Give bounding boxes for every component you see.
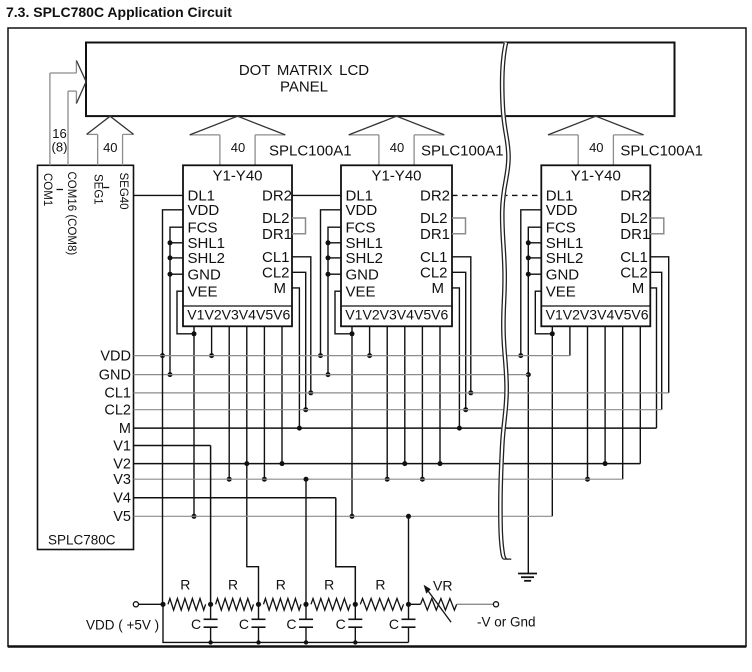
wire driver U3 DL2-DR1 loop (650, 218, 664, 234)
wire driver U2 pin V4 down (404, 326, 406, 463)
capacitor C1 (204, 604, 218, 642)
COM bus arrow head back bottom (75, 91, 77, 103)
svg-text:V1: V1 (113, 438, 131, 454)
dashed wire driver U2 DR2 to driver U3 DL1 (452, 194, 541, 196)
wire driver U3 VDD pin to VDD bus (521, 210, 542, 356)
svg-text:R: R (228, 577, 238, 593)
terminal VDD (+5V) open circle (133, 602, 138, 607)
svg-text:Y1-Y40: Y1-Y40 (571, 167, 621, 184)
COM bus arrow shaft bottom (68, 90, 76, 92)
wire driver U1 pin V3 down (228, 326, 230, 479)
junction driver U2 chain on GND bus (326, 372, 331, 377)
svg-text:DL2: DL2 (620, 210, 648, 227)
V1 bus descender (210, 446, 212, 605)
VDD rail descender (chip U1 VDD line continues to ladder) (162, 356, 164, 605)
driver U2 SPLC100A1 box (341, 165, 452, 326)
svg-text:R: R (180, 577, 190, 593)
svg-text:DR1: DR1 (420, 226, 450, 243)
wire driver U3 pin V2 down (569, 326, 571, 355)
svg-text:C: C (336, 616, 346, 632)
svg-text:-V or Gnd: -V or Gnd (477, 615, 536, 630)
ground symbol bar1 (518, 573, 537, 575)
COM bus arrow head back top (75, 61, 77, 74)
wire driver U3 pin V1 down (551, 326, 553, 516)
svg-text:7.3. SPLC780C Application Circ: 7.3. SPLC780C Application Circuit (6, 4, 232, 20)
wire driver U2 VDD pin to VDD bus (321, 210, 342, 356)
junction driver U1 VEE on V1 pin line (192, 331, 197, 336)
svg-text:SEG1: SEG1 (92, 174, 104, 205)
junction driver U3 pin V3 (585, 477, 590, 482)
capacitor C4 (348, 604, 362, 642)
driver U2 internal separator line (341, 305, 452, 307)
junction driver U2 pin V5 (420, 477, 425, 482)
wire driver U1 pin V6 down (281, 326, 283, 463)
svg-text:GND: GND (99, 367, 131, 383)
junction driver U2 SHL1 on chain (326, 240, 331, 245)
svg-text:CL2: CL2 (620, 265, 648, 282)
wire driver U1 SHL1 stub (170, 242, 183, 244)
svg-text:40: 40 (589, 140, 603, 155)
wire driver U2 pin V6 down (439, 326, 441, 463)
wire driver U2 DL2-DR1 loop (452, 218, 466, 234)
junction driver U1 pin V6 (280, 461, 285, 466)
junction bottom rail cap C1 (208, 640, 212, 644)
resistor R3 (264, 599, 302, 611)
bus line V4 (134, 497, 336, 499)
svg-text:VDD: VDD (346, 202, 378, 219)
svg-text:V3: V3 (113, 472, 131, 488)
wire driver U1 pin V5 down (263, 326, 265, 479)
svg-text:VEE: VEE (346, 283, 376, 300)
junction bottom rail cap C3 (304, 640, 308, 644)
svg-text:VR: VR (433, 578, 452, 594)
svg-text:VDD: VDD (188, 202, 220, 219)
svg-text:SHL2: SHL2 (346, 250, 384, 267)
LCD panel box (86, 43, 675, 117)
page break wavy mask (500, 43, 509, 560)
wire driver U2 SHL1 stub (328, 242, 341, 244)
svg-text:SHL2: SHL2 (188, 250, 226, 267)
svg-text:VDD: VDD (100, 348, 131, 364)
junction driver U3 chain on GND bus (526, 372, 531, 377)
junction driver U2 CL2 on CL2 bus (463, 407, 468, 412)
svg-text:FCS: FCS (546, 219, 576, 236)
svg-text:COM16 (COM8): COM16 (COM8) (65, 172, 77, 256)
driver U1 internal separator line (183, 305, 292, 307)
V3 bus descender (305, 479, 307, 604)
svg-text:DR2: DR2 (620, 188, 650, 205)
svg-text:FCS: FCS (346, 219, 376, 236)
wire driver U1 pin V4 down to ladder (V2 bias feed) (247, 326, 259, 604)
capacitor C3 (299, 604, 313, 642)
junction driver U2 CL1 on CL1 bus (468, 390, 473, 395)
wire junction6 to VR (409, 603, 421, 605)
wire driver U1 FCS chain vertical (170, 227, 183, 374)
junction ladder node 3 (303, 602, 308, 607)
svg-text:R: R (324, 577, 334, 593)
svg-text:PANEL: PANEL (280, 79, 328, 96)
bus line CL2 (134, 409, 662, 411)
wire driver U3 pin V5 down (622, 326, 624, 479)
wire driver U2 pin V5 down (421, 326, 423, 479)
wire driver U2 M to M bus (452, 288, 459, 428)
svg-text:CL2: CL2 (262, 265, 290, 282)
wire terminal to junction 1 (139, 603, 164, 605)
wire driver U1 M to M bus (292, 288, 299, 428)
junction ladder node 5 (406, 602, 411, 607)
svg-text:SHL2: SHL2 (546, 250, 584, 267)
V5 bus descender (408, 516, 410, 604)
wire driver U1 GND stub (170, 273, 183, 275)
wire SEG40 to driver U1 DL1 (134, 194, 184, 196)
wire driver U3 pin V3 down (587, 326, 589, 479)
wire driver U1 DL2-DR1 loop (292, 218, 306, 234)
resistor R1 (168, 599, 206, 611)
wire driver U2 pin V1 down (351, 326, 353, 516)
junction driver U2 GND on chain (326, 272, 331, 277)
wire driver U3 GND stub (528, 273, 541, 275)
svg-text:V2: V2 (113, 456, 131, 472)
junction driver U3 SHL1 on chain (526, 240, 531, 245)
svg-text:CL1: CL1 (262, 249, 290, 266)
junction driver U2 VEE on V1 pin line (350, 331, 355, 336)
bus line VDD (134, 355, 570, 357)
bus arrow from driver U1 to panel (190, 116, 286, 165)
wire driver U2 VEE to V1 pin (335, 291, 352, 334)
SEG bus arrow into panel (87, 116, 134, 165)
wire driver U1 pin V1 down (193, 326, 195, 516)
svg-text:SPLC100A1: SPLC100A1 (620, 143, 703, 160)
junction driver U1 M on M bus (297, 426, 302, 431)
svg-text:DR2: DR2 (262, 188, 292, 205)
svg-text:DR1: DR1 (262, 226, 292, 243)
bus arrow from driver U3 to panel (548, 116, 644, 165)
svg-text:M: M (632, 280, 645, 297)
bus line M (134, 427, 657, 429)
wire driver U2 SHL2 stub (328, 257, 341, 259)
wire driver U1 VEE to V1 pin (177, 291, 194, 334)
ladder bottom rail (163, 604, 409, 642)
bus line GND (134, 374, 529, 376)
wire driver U3 pin V4 down (604, 326, 606, 463)
wire driver U3 M to M bus (650, 288, 656, 428)
junction driver U1 pin V5 (262, 477, 267, 482)
svg-text:(8): (8) (52, 140, 68, 155)
junction driver U3 VDD on VDD bus (518, 353, 523, 358)
svg-text:40: 40 (231, 140, 245, 155)
junction driver U3 GND on chain (526, 272, 531, 277)
svg-text:M: M (119, 421, 131, 437)
svg-text:CL2: CL2 (104, 403, 131, 419)
junction driver U2 VDD on VDD bus (318, 353, 323, 358)
variable resistor VR zigzag (421, 599, 457, 611)
wire driver U1 SHL2 stub (170, 257, 183, 259)
junction driver U2 pin V1 (350, 514, 355, 519)
junction V3 bus descender (304, 477, 309, 482)
resistor R2 (216, 599, 254, 611)
VR arrow (424, 585, 452, 622)
COM bus wire left vertical (49, 73, 51, 165)
driver U3 SPLC100A1 box (541, 165, 650, 326)
svg-text:R: R (375, 577, 385, 593)
wire driver U2 pin V3 down (386, 326, 388, 479)
ground symbol bar3 (524, 580, 531, 582)
range dash between COM1 and COM16 (57, 189, 64, 191)
bus line V3 (134, 478, 623, 480)
junction driver U1 SHL1 on chain (168, 240, 173, 245)
svg-text:R: R (276, 577, 286, 593)
wire driver U3 CL1 to CL1 bus (650, 257, 668, 393)
svg-text:V4: V4 (113, 491, 131, 507)
junction driver U1 pin V4 on V2 bus (244, 461, 249, 466)
svg-text:V1V2V3V4V5V6: V1V2V3V4V5V6 (546, 307, 649, 323)
bus line V5 (134, 515, 553, 517)
svg-text:CL1: CL1 (620, 249, 648, 266)
svg-text:VEE: VEE (188, 283, 218, 300)
junction driver U1 pin V1 (192, 514, 197, 519)
svg-text:DR2: DR2 (420, 188, 450, 205)
frame bottom thick edge (8, 645, 746, 648)
wire driver U3 FCS chain vertical (528, 227, 541, 573)
junction ladder node 0 (160, 602, 165, 607)
junction driver U1 CL2 on CL2 bus (303, 407, 308, 412)
bus line V2 (134, 463, 641, 465)
COM bus arrow head diagonals (76, 61, 86, 104)
junction driver U3 pin V4 (603, 461, 608, 466)
wire driver U1 CL1 to CL1 bus (292, 257, 311, 393)
svg-text:GND: GND (188, 266, 222, 283)
junction ladder node 1 (208, 602, 213, 607)
bus arrow from driver U2 to panel (349, 116, 445, 165)
controller U0 SPLC780C box (38, 165, 134, 549)
junction driver U2 pin V4 (402, 461, 407, 466)
svg-text:V5: V5 (113, 509, 131, 525)
svg-text:CL1: CL1 (420, 249, 448, 266)
wire driver U1 DR2 to driver U2 DL1 (292, 194, 341, 196)
svg-text:Y1-Y40: Y1-Y40 (212, 167, 262, 184)
svg-text:GND: GND (546, 266, 580, 283)
resistor R4 (311, 599, 350, 611)
wire driver U2 FCS chain vertical (328, 227, 341, 374)
junction driver U1 VDD on VDD bus (160, 353, 165, 358)
svg-text:V1V2V3V4V5V6: V1V2V3V4V5V6 (187, 307, 290, 323)
svg-text:V1V2V3V4V5V6: V1V2V3V4V5V6 (345, 307, 448, 323)
capacitor C5 (402, 604, 416, 642)
junction ladder node 2 (256, 602, 261, 607)
svg-text:SPLC780C: SPLC780C (48, 533, 116, 548)
svg-text:C: C (191, 616, 201, 632)
wire driver U1 CL2 to CL2 bus (292, 272, 306, 409)
wire VR to -V terminal (457, 603, 494, 605)
wire driver U2 CL1 to CL1 bus (452, 257, 471, 393)
svg-text:DOT MATRIX LCD: DOT MATRIX LCD (239, 62, 369, 79)
junction driver U1 GND on chain (168, 272, 173, 277)
junction driver U2 pin V3 (385, 477, 390, 482)
wire driver U3 CL2 to CL2 bus (650, 272, 661, 409)
wire driver U2 CL2 to CL2 bus (452, 272, 466, 409)
resistor R5 (360, 599, 403, 611)
svg-text:SPLC100A1: SPLC100A1 (421, 143, 504, 160)
svg-text:C: C (389, 616, 399, 632)
junction driver U1 SHL2 on chain (168, 255, 173, 260)
junction driver U1 pin V3 (227, 477, 232, 482)
wire driver U2 pin V2 down (369, 326, 371, 355)
junction driver U1 chain on GND bus (168, 372, 173, 377)
range dash between SEG1 and SEG40 (103, 187, 109, 189)
svg-text:Y1-Y40: Y1-Y40 (371, 167, 421, 184)
junction driver U3 SHL2 on chain (526, 255, 531, 260)
svg-text:COM1: COM1 (41, 173, 53, 206)
terminal -V open circle (493, 602, 498, 607)
svg-text:SPLC100A1: SPLC100A1 (269, 143, 352, 160)
driver U3 internal separator line (541, 305, 650, 307)
svg-text:DL2: DL2 (262, 210, 290, 227)
junction V5 bus descender (406, 514, 411, 519)
wire driver U1 pin V2 down (211, 326, 213, 355)
svg-text:C: C (239, 616, 249, 632)
svg-text:VEE: VEE (546, 283, 576, 300)
junction driver U3 VEE on V1 pin line (550, 331, 555, 336)
V4 bus descender with jog (336, 498, 356, 605)
COM bus wire right vertical (67, 91, 69, 165)
svg-text:M: M (432, 280, 445, 297)
svg-text:DL2: DL2 (420, 210, 448, 227)
junction driver U2 SHL2 on chain (326, 255, 331, 260)
junction driver U2 pin V2 (367, 353, 372, 358)
svg-text:VDD: VDD (546, 202, 578, 219)
capacitor C2 (252, 604, 266, 642)
wire driver U3 SHL1 stub (528, 242, 541, 244)
wire driver U3 pin V6 down (639, 326, 641, 463)
wire driver U1 VDD pin to VDD bus (163, 210, 184, 356)
ground symbol bar2 (521, 576, 534, 578)
junction driver U1 pin V2 (209, 353, 214, 358)
svg-text:40: 40 (103, 140, 117, 155)
junction bottom rail cap C4 (353, 640, 357, 644)
svg-text:DR1: DR1 (620, 226, 650, 243)
bus line CL1 (134, 392, 669, 394)
svg-text:M: M (274, 280, 287, 297)
svg-text:FCS: FCS (188, 219, 218, 236)
junction driver U1 CL1 on CL1 bus (308, 390, 313, 395)
wire driver U3 SHL2 stub (528, 257, 541, 259)
wire driver U3 VEE to V1 pin (535, 291, 552, 334)
junction driver U2 pin V6 (438, 461, 443, 466)
page break wavy line right (502, 43, 511, 560)
junction ladder node 4 (353, 602, 358, 607)
junction bottom rail cap C2 (256, 640, 260, 644)
junction driver U2 M on M bus (457, 426, 462, 431)
svg-text:CL2: CL2 (420, 265, 448, 282)
wire driver U2 GND stub (328, 273, 341, 275)
svg-text:GND: GND (346, 266, 380, 283)
bus line V1 (134, 445, 211, 447)
page break wavy line left (499, 43, 508, 560)
driver U1 SPLC100A1 box (183, 165, 292, 326)
svg-text:CL1: CL1 (104, 386, 131, 402)
svg-text:VDD ( +5V ): VDD ( +5V ) (86, 618, 159, 633)
svg-text:C: C (286, 616, 296, 632)
svg-text:SEG40: SEG40 (117, 173, 129, 210)
svg-text:40: 40 (390, 140, 404, 155)
COM bus arrow shaft top (50, 72, 77, 74)
